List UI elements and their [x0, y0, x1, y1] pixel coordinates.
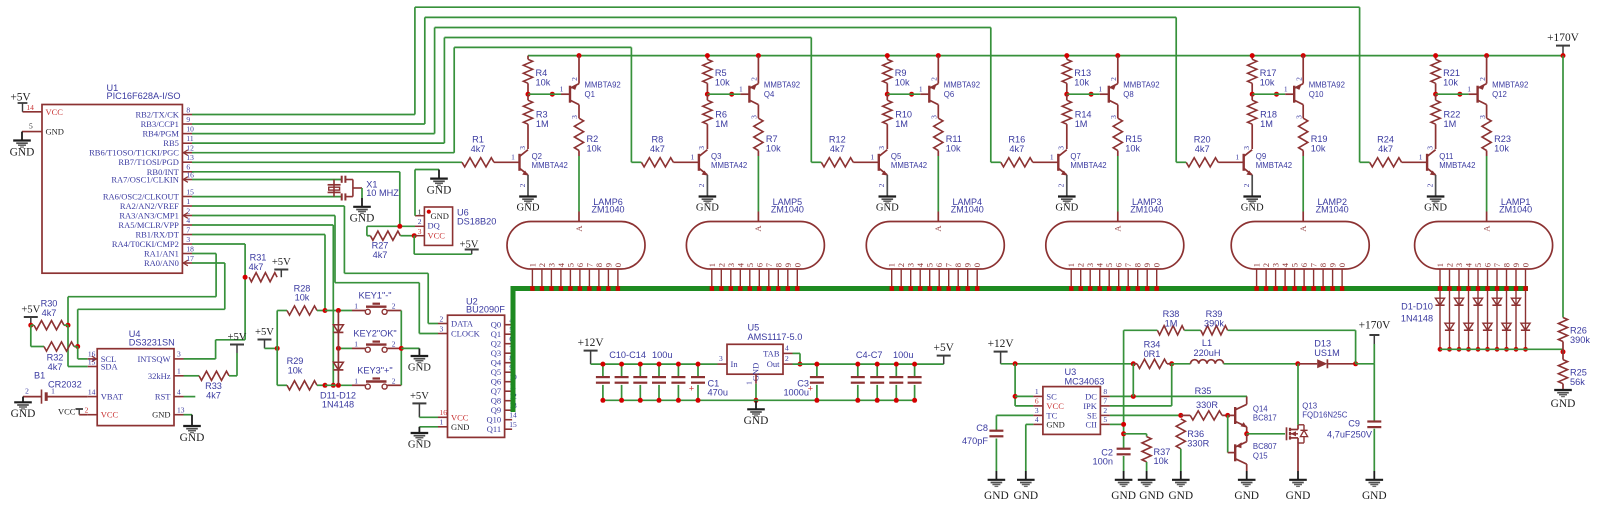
svg-text:3: 3	[418, 227, 422, 236]
svg-text:+12V: +12V	[578, 337, 605, 349]
svg-text:3: 3	[1294, 115, 1303, 119]
svg-text:3: 3	[1057, 146, 1066, 150]
svg-text:5: 5	[1103, 415, 1107, 424]
svg-text:4k7: 4k7	[373, 250, 388, 260]
svg-text:GND: GND	[46, 127, 64, 137]
svg-text:FQD16N25C: FQD16N25C	[1302, 411, 1347, 420]
svg-text:ZM1040: ZM1040	[1130, 205, 1163, 215]
svg-text:3: 3	[1242, 146, 1251, 150]
svg-text:Q2: Q2	[532, 152, 542, 161]
svg-text:D1-D10: D1-D10	[1401, 301, 1433, 311]
svg-text:1: 1	[186, 197, 190, 206]
svg-text:RA3/AN3/CMP1: RA3/AN3/CMP1	[119, 211, 179, 221]
svg-text:MMBTA42: MMBTA42	[1439, 161, 1475, 170]
svg-text:A: A	[574, 225, 584, 232]
svg-text:2: 2	[1057, 183, 1066, 187]
svg-text:Out: Out	[767, 359, 780, 369]
svg-text:5: 5	[925, 263, 935, 267]
svg-text:GND: GND	[451, 422, 469, 432]
svg-text:Q4: Q4	[491, 358, 502, 368]
svg-text:10k: 10k	[1125, 143, 1140, 153]
svg-text:6: 6	[1114, 262, 1124, 267]
svg-text:3: 3	[697, 146, 706, 150]
svg-text:KEY1"-": KEY1"-"	[358, 291, 391, 301]
svg-text:2: 2	[537, 263, 547, 267]
svg-text:A: A	[1113, 225, 1123, 232]
svg-text:GND: GND	[517, 203, 540, 214]
svg-text:DC: DC	[1085, 391, 1097, 401]
svg-text:VBAT: VBAT	[101, 392, 124, 402]
svg-text:GND: GND	[11, 408, 36, 420]
svg-text:GND: GND	[1241, 203, 1264, 214]
svg-text:1: 1	[1066, 263, 1076, 267]
svg-text:32kHz: 32kHz	[148, 371, 171, 381]
svg-text:11: 11	[186, 134, 193, 143]
svg-text:3: 3	[570, 115, 579, 119]
svg-text:100n: 100n	[1093, 457, 1113, 467]
svg-text:Q6: Q6	[491, 377, 501, 387]
svg-text:MMBTA92: MMBTA92	[944, 81, 980, 90]
svg-text:470pF: 470pF	[962, 436, 988, 446]
svg-text:MMBTA42: MMBTA42	[1256, 161, 1292, 170]
svg-text:GND: GND	[408, 440, 431, 451]
svg-text:10k: 10k	[587, 143, 602, 153]
svg-text:7: 7	[1492, 262, 1502, 267]
svg-text:RST: RST	[155, 392, 171, 402]
svg-text:4,7uF250V: 4,7uF250V	[1327, 429, 1373, 439]
svg-text:Q14: Q14	[1253, 404, 1268, 413]
svg-text:1: 1	[1467, 85, 1471, 94]
svg-text:Q10: Q10	[486, 415, 501, 425]
svg-text:9: 9	[963, 263, 973, 267]
svg-text:Q11: Q11	[1439, 152, 1453, 161]
svg-text:BC817: BC817	[1253, 414, 1277, 423]
svg-text:1: 1	[919, 85, 923, 94]
svg-text:4: 4	[556, 262, 566, 267]
svg-text:RA1/AN1: RA1/AN1	[144, 249, 179, 259]
svg-text:BC807: BC807	[1253, 442, 1277, 451]
svg-text:In: In	[731, 359, 739, 369]
svg-text:2: 2	[392, 377, 396, 386]
svg-text:GND: GND	[1286, 490, 1311, 502]
svg-text:100u: 100u	[652, 350, 672, 360]
svg-text:2: 2	[716, 263, 726, 267]
svg-text:10: 10	[186, 124, 194, 133]
svg-text:2: 2	[877, 183, 886, 187]
svg-text:PIC16F628A-I/SO: PIC16F628A-I/SO	[107, 91, 181, 101]
svg-text:RB3/CCP1: RB3/CCP1	[141, 119, 179, 129]
svg-text:Q2: Q2	[491, 339, 501, 349]
svg-text:Q12: Q12	[1492, 90, 1507, 99]
svg-text:Q5: Q5	[491, 367, 501, 377]
svg-text:1: 1	[1419, 153, 1423, 162]
svg-text:9: 9	[603, 263, 613, 267]
svg-text:15: 15	[186, 187, 194, 196]
svg-text:RA0/AN0: RA0/AN0	[144, 258, 179, 268]
svg-text:GND: GND	[1111, 490, 1136, 502]
svg-text:4k7: 4k7	[48, 362, 63, 372]
svg-text:RB2/TX/CK: RB2/TX/CK	[135, 110, 179, 120]
svg-text:2: 2	[750, 77, 759, 81]
svg-text:A: A	[753, 225, 763, 232]
svg-text:18: 18	[186, 244, 194, 253]
svg-text:MMBTA42: MMBTA42	[891, 161, 927, 170]
svg-text:2: 2	[570, 77, 579, 81]
svg-text:1M: 1M	[1444, 119, 1457, 129]
svg-text:1M: 1M	[1165, 319, 1178, 329]
svg-text:330R: 330R	[1187, 438, 1209, 448]
svg-text:1N4148: 1N4148	[322, 400, 354, 410]
svg-text:Q7: Q7	[491, 386, 501, 396]
svg-text:RA6/OSC2/CLKOUT: RA6/OSC2/CLKOUT	[103, 192, 180, 202]
svg-text:R39: R39	[1206, 309, 1223, 319]
svg-text:10k: 10k	[1154, 456, 1169, 466]
svg-text:4: 4	[785, 344, 789, 353]
svg-text:3: 3	[726, 263, 736, 267]
svg-text:DATA: DATA	[451, 319, 474, 329]
svg-text:+5V: +5V	[228, 332, 247, 343]
svg-text:3: 3	[719, 354, 723, 363]
svg-text:ZM1040: ZM1040	[591, 205, 624, 215]
svg-text:8: 8	[1133, 263, 1143, 267]
svg-text:1000u: 1000u	[783, 388, 809, 398]
svg-text:7: 7	[944, 262, 954, 267]
svg-text:4k7: 4k7	[471, 144, 486, 154]
svg-text:Q8: Q8	[1123, 90, 1133, 99]
svg-text:8: 8	[953, 263, 963, 267]
svg-text:470u: 470u	[708, 388, 728, 398]
svg-text:Q9: Q9	[1256, 152, 1266, 161]
svg-text:5: 5	[1104, 263, 1114, 267]
svg-text:1: 1	[745, 381, 754, 385]
svg-text:10k: 10k	[1074, 77, 1089, 87]
svg-text:2: 2	[440, 314, 444, 323]
svg-text:10k: 10k	[766, 143, 781, 153]
svg-text:+5V: +5V	[272, 257, 291, 268]
svg-text:RA4/T0CKI/CMP2: RA4/T0CKI/CMP2	[112, 239, 179, 249]
svg-text:1: 1	[354, 377, 358, 386]
svg-text:0: 0	[1337, 263, 1347, 267]
svg-text:+5V: +5V	[21, 305, 40, 316]
svg-text:1M: 1M	[1075, 119, 1088, 129]
svg-text:4k7: 4k7	[1009, 144, 1024, 154]
svg-text:390k: 390k	[1204, 319, 1224, 329]
svg-text:1: 1	[440, 418, 444, 427]
svg-text:R38: R38	[1163, 309, 1180, 319]
svg-text:ZM1040: ZM1040	[1316, 205, 1349, 215]
svg-text:R16: R16	[1008, 134, 1025, 144]
svg-text:C8: C8	[976, 423, 988, 433]
svg-text:R31: R31	[250, 253, 267, 263]
svg-text:3: 3	[1035, 406, 1039, 415]
svg-text:CII: CII	[1086, 419, 1098, 429]
svg-text:10k: 10k	[1311, 143, 1326, 153]
svg-text:3: 3	[930, 115, 939, 119]
svg-text:Q6: Q6	[944, 90, 954, 99]
svg-text:220uH: 220uH	[1193, 348, 1220, 358]
svg-text:Q13: Q13	[1302, 401, 1317, 410]
svg-text:R24: R24	[1377, 134, 1394, 144]
svg-text:Q3: Q3	[491, 348, 501, 358]
svg-text:7: 7	[186, 225, 190, 234]
svg-text:R35: R35	[1195, 386, 1212, 396]
svg-text:7: 7	[1309, 262, 1319, 267]
svg-text:Q10: Q10	[1309, 90, 1324, 99]
svg-text:2: 2	[785, 354, 789, 363]
svg-text:VCC: VCC	[58, 406, 76, 416]
svg-text:GND: GND	[427, 185, 452, 197]
svg-text:SDA: SDA	[101, 362, 119, 372]
svg-text:2: 2	[896, 263, 906, 267]
svg-text:2: 2	[392, 340, 396, 349]
svg-text:9: 9	[1511, 263, 1521, 267]
svg-text:GND: GND	[1424, 203, 1447, 214]
svg-text:100u: 100u	[893, 350, 913, 360]
svg-text:4k7: 4k7	[42, 308, 57, 318]
svg-text:8: 8	[594, 263, 604, 267]
svg-text:A: A	[933, 225, 943, 232]
svg-text:GND: GND	[1139, 490, 1164, 502]
svg-text:B1: B1	[34, 370, 45, 380]
svg-text:10k: 10k	[946, 143, 961, 153]
svg-text:+: +	[689, 384, 694, 394]
svg-text:6: 6	[934, 262, 944, 267]
svg-text:GND: GND	[1013, 490, 1038, 502]
svg-text:8: 8	[773, 263, 783, 267]
svg-text:MMBTA92: MMBTA92	[1123, 81, 1159, 90]
svg-text:INTSQW: INTSQW	[137, 354, 170, 364]
svg-text:MC34063: MC34063	[1065, 376, 1105, 386]
svg-text:10k: 10k	[715, 77, 730, 87]
svg-text:10k: 10k	[895, 77, 910, 87]
svg-text:Q4: Q4	[764, 90, 775, 99]
svg-text:Q5: Q5	[891, 152, 902, 161]
svg-text:1: 1	[1050, 153, 1054, 162]
svg-text:4: 4	[915, 262, 925, 267]
svg-text:2: 2	[930, 77, 939, 81]
svg-text:DS18B20: DS18B20	[457, 217, 496, 227]
svg-text:SC: SC	[1046, 391, 1057, 401]
svg-text:RA5/MCLR/VPP: RA5/MCLR/VPP	[118, 220, 179, 230]
svg-text:Q1: Q1	[585, 90, 595, 99]
svg-text:RB4/PGM: RB4/PGM	[143, 129, 180, 139]
svg-text:1: 1	[691, 153, 695, 162]
svg-text:0: 0	[613, 263, 623, 267]
svg-text:2: 2	[1478, 77, 1487, 81]
svg-text:GND: GND	[696, 203, 719, 214]
svg-text:KEY2"OK": KEY2"OK"	[353, 329, 396, 339]
svg-text:16: 16	[440, 408, 448, 417]
svg-text:1: 1	[177, 367, 181, 376]
svg-text:1: 1	[354, 340, 358, 349]
svg-text:1: 1	[887, 263, 897, 267]
svg-text:1M: 1M	[1260, 119, 1273, 129]
svg-text:2: 2	[1261, 263, 1271, 267]
svg-text:C9: C9	[1348, 418, 1360, 428]
svg-text:1M: 1M	[715, 119, 728, 129]
svg-text:GND: GND	[10, 146, 35, 158]
svg-text:4: 4	[186, 216, 190, 225]
svg-text:3: 3	[1454, 263, 1464, 267]
svg-text:13: 13	[177, 406, 185, 415]
svg-text:1: 1	[51, 386, 55, 395]
svg-text:1: 1	[511, 153, 515, 162]
svg-text:U5: U5	[748, 323, 760, 333]
svg-text:MMBTA92: MMBTA92	[764, 81, 800, 90]
svg-text:GND: GND	[350, 213, 375, 225]
svg-text:+170V: +170V	[1547, 32, 1580, 44]
svg-text:GND: GND	[876, 203, 899, 214]
svg-text:0: 0	[1521, 263, 1531, 267]
svg-text:4k7: 4k7	[1195, 144, 1210, 154]
svg-text:Q9: Q9	[491, 405, 501, 415]
svg-text:4k7: 4k7	[830, 144, 845, 154]
svg-text:Q11: Q11	[487, 424, 501, 434]
svg-text:5: 5	[565, 263, 575, 267]
svg-text:3: 3	[1478, 115, 1487, 119]
svg-text:2: 2	[1242, 183, 1251, 187]
svg-text:A: A	[1298, 225, 1308, 232]
svg-text:12: 12	[186, 144, 194, 153]
svg-text:1: 1	[560, 85, 564, 94]
svg-text:4k7: 4k7	[1378, 144, 1393, 154]
svg-text:2: 2	[1445, 263, 1455, 267]
svg-text:10k: 10k	[1260, 77, 1275, 87]
svg-text:A: A	[1481, 225, 1491, 232]
svg-text:2: 2	[25, 386, 29, 395]
svg-text:5: 5	[745, 263, 755, 267]
svg-text:Q0: Q0	[491, 320, 501, 330]
svg-text:GND: GND	[180, 432, 205, 444]
svg-text:VCC: VCC	[451, 412, 469, 422]
svg-text:8: 8	[186, 105, 190, 114]
svg-text:GND: GND	[1362, 490, 1387, 502]
svg-text:BU2090F: BU2090F	[466, 305, 505, 315]
svg-text:C4-C7: C4-C7	[856, 350, 883, 360]
svg-text:MMBTA92: MMBTA92	[585, 81, 621, 90]
svg-text:VCC: VCC	[428, 230, 446, 240]
svg-text:GND: GND	[744, 415, 769, 427]
svg-text:2: 2	[186, 206, 190, 215]
svg-text:56k: 56k	[1570, 377, 1585, 387]
svg-text:MMBTA42: MMBTA42	[711, 161, 747, 170]
svg-text:ZM1040: ZM1040	[1499, 205, 1532, 215]
svg-text:3: 3	[546, 263, 556, 267]
svg-text:US1M: US1M	[1314, 348, 1340, 358]
svg-text:L1: L1	[1202, 338, 1212, 348]
svg-text:3: 3	[518, 146, 527, 150]
svg-text:+12V: +12V	[988, 338, 1015, 350]
svg-text:17: 17	[186, 254, 194, 263]
svg-text:DQ: DQ	[428, 220, 440, 230]
svg-text:VCC: VCC	[1046, 401, 1064, 411]
svg-text:1M: 1M	[536, 119, 549, 129]
svg-text:7: 7	[764, 262, 774, 267]
svg-text:0: 0	[792, 263, 802, 267]
svg-text:6: 6	[1483, 262, 1493, 267]
svg-text:+5V: +5V	[10, 91, 31, 103]
svg-text:14: 14	[88, 387, 96, 396]
svg-text:AMS1117-5.0: AMS1117-5.0	[748, 332, 803, 342]
svg-text:CLOCK: CLOCK	[451, 329, 481, 339]
svg-text:1: 1	[1035, 387, 1039, 396]
svg-text:IPK: IPK	[1083, 401, 1098, 411]
svg-text:Q3: Q3	[711, 152, 721, 161]
svg-text:1: 1	[1098, 85, 1102, 94]
svg-text:10 MHZ: 10 MHZ	[366, 188, 399, 198]
svg-text:1: 1	[1252, 263, 1262, 267]
svg-text:3: 3	[877, 146, 886, 150]
svg-text:6: 6	[754, 262, 764, 267]
svg-text:MMBTA92: MMBTA92	[1309, 81, 1345, 90]
svg-text:RB5: RB5	[163, 138, 179, 148]
svg-text:GND: GND	[1168, 490, 1193, 502]
svg-text:ZM1040: ZM1040	[771, 205, 804, 215]
svg-text:7: 7	[584, 262, 594, 267]
svg-text:GND: GND	[1234, 490, 1259, 502]
svg-text:Q7: Q7	[1070, 152, 1080, 161]
svg-text:2: 2	[518, 183, 527, 187]
svg-text:KEY3"+": KEY3"+"	[357, 366, 392, 376]
svg-text:Q15: Q15	[1253, 452, 1268, 461]
svg-text:5: 5	[29, 121, 33, 130]
svg-text:GND: GND	[152, 410, 170, 420]
svg-text:4: 4	[1280, 262, 1290, 267]
svg-text:RA2/AN2/VREF: RA2/AN2/VREF	[120, 201, 179, 211]
svg-text:4k7: 4k7	[206, 390, 221, 400]
svg-text:2: 2	[1103, 406, 1107, 415]
svg-text:1: 1	[1435, 263, 1445, 267]
svg-text:10k: 10k	[295, 293, 310, 303]
svg-text:330R: 330R	[1196, 400, 1218, 410]
svg-text:4: 4	[1464, 262, 1474, 267]
svg-text:3: 3	[1425, 146, 1434, 150]
svg-text:1: 1	[707, 263, 717, 267]
svg-text:10k: 10k	[536, 77, 551, 87]
svg-text:6: 6	[1035, 397, 1039, 406]
svg-text:2: 2	[85, 406, 89, 415]
svg-text:4k7: 4k7	[249, 262, 264, 272]
svg-text:3: 3	[1271, 263, 1281, 267]
svg-text:8: 8	[1502, 263, 1512, 267]
svg-text:6: 6	[1299, 262, 1309, 267]
svg-text:3: 3	[906, 263, 916, 267]
svg-text:GND: GND	[408, 363, 431, 374]
svg-text:GND: GND	[1046, 419, 1064, 429]
svg-text:+5V: +5V	[410, 391, 429, 402]
svg-text:1M: 1M	[895, 119, 908, 129]
svg-text:6: 6	[575, 262, 585, 267]
svg-text:VCC: VCC	[46, 107, 64, 117]
svg-text:ZM1040: ZM1040	[951, 205, 984, 215]
svg-text:R8: R8	[652, 134, 664, 144]
svg-text:4: 4	[735, 262, 745, 267]
svg-text:1: 1	[870, 153, 874, 162]
svg-text:15: 15	[88, 357, 96, 366]
svg-text:2: 2	[1109, 77, 1118, 81]
svg-text:D13: D13	[1314, 339, 1331, 349]
svg-text:Q1: Q1	[491, 329, 501, 339]
svg-text:GND: GND	[1551, 398, 1576, 410]
svg-text:RB1/RX/DT: RB1/RX/DT	[135, 230, 179, 240]
svg-text:3: 3	[440, 324, 444, 333]
svg-text:MMBTA42: MMBTA42	[532, 161, 568, 170]
svg-text:3: 3	[177, 350, 181, 359]
svg-text:0R1: 0R1	[1144, 349, 1161, 359]
svg-text:RB7/T1OSI/PGD: RB7/T1OSI/PGD	[118, 157, 178, 167]
svg-text:2: 2	[418, 217, 422, 226]
svg-text:+170V: +170V	[1359, 320, 1392, 332]
